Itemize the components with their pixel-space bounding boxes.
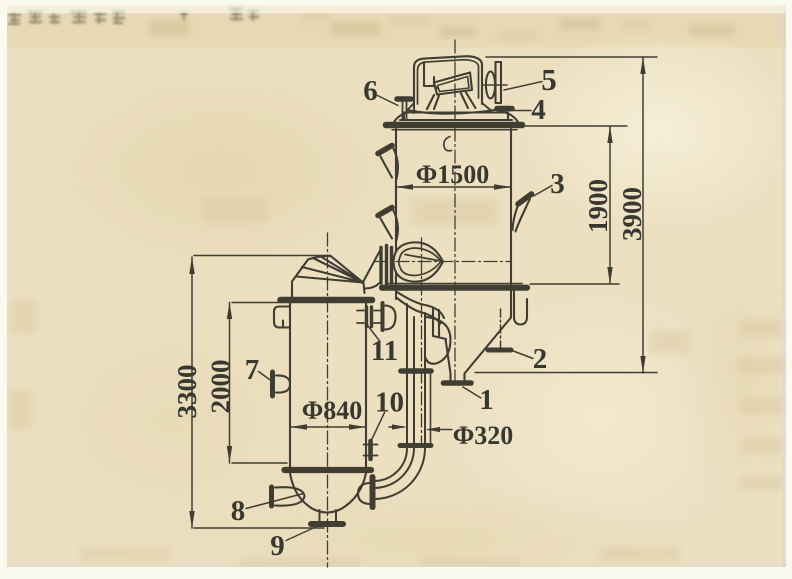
svg-text:4: 4	[531, 94, 546, 126]
nozzle 7	[273, 372, 291, 396]
drive head outline	[414, 56, 482, 113]
head base plate	[400, 113, 512, 121]
leader 3	[534, 186, 553, 197]
volute casing	[426, 317, 451, 364]
dimension phi1500	[396, 186, 511, 188]
nozzle 3	[513, 194, 532, 232]
nozzle 9	[311, 510, 343, 524]
svg-text:5: 5	[541, 62, 557, 97]
3900 arrows	[640, 57, 645, 74]
leader 5	[504, 82, 542, 91]
svg-text:3900: 3900	[617, 187, 647, 241]
leader 8	[246, 494, 304, 509]
ear bracket	[274, 307, 290, 328]
bleed-through ghost marks	[8, 7, 259, 24]
drive belt housing	[434, 73, 472, 95]
inlet device (egg)	[394, 242, 444, 281]
cone bottom flange (item 1)	[444, 380, 472, 386]
dimension 3300	[192, 256, 330, 529]
dimension phi840	[290, 426, 366, 428]
svg-text:8: 8	[231, 495, 246, 527]
pipe flange collar upper	[401, 368, 431, 374]
2000 arrows	[227, 303, 232, 320]
1900 arrows	[607, 126, 612, 143]
pipe flange collar lower	[400, 443, 431, 448]
head base wave	[407, 108, 505, 114]
hood of V2	[292, 256, 363, 297]
pipe elbow	[374, 448, 425, 499]
hook mark	[444, 137, 452, 151]
dimension 2000	[230, 303, 288, 464]
svg-text:1: 1	[479, 384, 494, 416]
svg-text:Φ840: Φ840	[302, 396, 363, 425]
dimension phi320 arrows lines	[389, 427, 452, 430]
shell V1 left wall	[395, 129, 397, 285]
nozzle 6	[397, 99, 411, 119]
svg-text:9: 9	[270, 530, 285, 562]
svg-text:2: 2	[533, 343, 548, 375]
centerline vessel V1 (right column)	[454, 40, 456, 380]
centerline vessel V2 (left column)	[327, 233, 329, 567]
elbow end flange	[370, 477, 376, 507]
elbow reducer bulge	[358, 483, 369, 504]
svg-text:3: 3	[550, 168, 565, 200]
sight glass ellipse (item 5)	[486, 72, 495, 99]
phi840 arrows	[290, 424, 307, 430]
dimension 1900	[516, 126, 627, 284]
bottom flange F2	[388, 283, 522, 285]
nozzle 10	[364, 441, 378, 459]
svg-text:11: 11	[371, 335, 398, 367]
drive legs	[427, 93, 476, 110]
dimension arrowheads	[189, 57, 645, 528]
svg-text:10: 10	[375, 387, 404, 419]
shell V1 right wall	[510, 129, 512, 285]
duct flange stack	[381, 246, 392, 286]
V2 dished bottom	[290, 473, 366, 513]
V2 bottom flange	[285, 467, 372, 473]
svg-text:6: 6	[363, 75, 378, 107]
cone section	[446, 291, 512, 381]
phi1500 arrows	[396, 184, 413, 190]
dished top head	[394, 111, 518, 122]
outlet duct curves under V1	[397, 292, 444, 318]
white scan borders	[782, 0, 786, 579]
svg-text:2000: 2000	[206, 360, 236, 414]
leader 9	[286, 525, 321, 541]
top flange F1	[386, 122, 522, 129]
svg-text:3300: 3300	[172, 365, 202, 419]
svg-text:1900: 1900	[583, 179, 613, 233]
support leg item 2	[488, 309, 511, 350]
leader 11	[367, 324, 381, 342]
nozzle 4 stub	[497, 106, 512, 112]
leader 2	[512, 351, 533, 359]
3300 arrows	[189, 257, 194, 274]
downcomer pipe	[407, 304, 425, 443]
nozzle L2 (lower left)	[378, 208, 398, 241]
nozzle 8	[272, 487, 305, 506]
vapor duct	[363, 252, 380, 294]
leader 7	[259, 372, 274, 383]
V2 top flange	[281, 297, 373, 304]
step bracket	[433, 308, 446, 339]
leader 6	[378, 96, 399, 106]
dimension 3900	[475, 57, 657, 373]
svg-text:Φ1500: Φ1500	[416, 160, 490, 189]
V2 shell walls	[290, 303, 366, 467]
leader 4	[503, 110, 531, 112]
centerline inlet nozzle axis	[374, 261, 511, 263]
support boot lug right	[514, 291, 527, 325]
side plate	[496, 62, 502, 103]
leader 1	[463, 387, 481, 398]
centerline downcomer pipe	[421, 238, 423, 446]
nozzle 11	[357, 303, 396, 330]
nozzle L1 (upper left)	[378, 146, 398, 180]
svg-text:7: 7	[245, 354, 260, 386]
svg-text:Φ320: Φ320	[453, 421, 514, 450]
drive head left channel	[424, 62, 438, 89]
phi320 arrows	[392, 424, 407, 429]
leader 10	[372, 413, 385, 441]
